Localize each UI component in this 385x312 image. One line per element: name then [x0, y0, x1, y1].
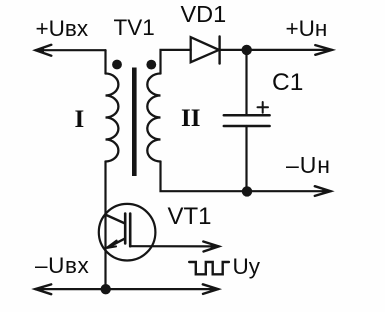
label winding I: [75, 106, 85, 134]
transistor collector line: [107, 215, 125, 223]
transformer core: [132, 68, 137, 177]
capacitor C1 bottom plate: [224, 125, 270, 128]
arrowhead right (+Uн terminal): [315, 45, 332, 55]
arrowhead left (+Uвх terminal): [36, 45, 52, 56]
label Uy: [233, 254, 261, 280]
control signal square-wave symbol: [189, 262, 229, 274]
capacitor polarity plus sign: [258, 102, 269, 113]
label TV1: [114, 15, 155, 41]
diode VD1 cathode bar: [218, 36, 220, 63]
arrowhead right (-Uн terminal): [315, 186, 331, 196]
label VD1: [181, 1, 227, 28]
wire top corner down to winding I: [104, 50, 106, 73]
diode VD1 triangle: [191, 37, 219, 62]
transistor base/channel bar: [124, 214, 127, 244]
label +Uвх: [36, 16, 89, 42]
wire winding II bottom to -Uн terminal: [161, 162, 331, 192]
label -Uвх: [35, 253, 89, 279]
label +Uн: [286, 16, 328, 42]
wire winding I bottom through transistor VT1 to bottom rail: [104, 162, 106, 290]
wire node down to capacitor C1: [245, 50, 247, 115]
wire diode cathode to +Uн terminal: [220, 49, 332, 51]
label C1: [272, 69, 303, 97]
arrowhead right (bottom rail): [203, 284, 218, 294]
transistor VT1 body circle: [99, 204, 156, 261]
transistor emitter line with arrow: [108, 239, 125, 248]
transistor gate electrode bar (L shape): [129, 214, 132, 247]
bottom rail -Uвх bus: [35, 288, 218, 290]
node junction top (diode / C1 / +Uн): [242, 45, 252, 55]
node junction bottom rail (emitter / -Uвх): [101, 284, 111, 294]
node junction bottom-right (C1 / -Uн): [242, 186, 252, 196]
gate control lead with arrow (Uу input): [130, 245, 219, 247]
polarity dot winding I: [112, 60, 122, 70]
polarity dot winding II: [146, 60, 156, 70]
label winding II: [181, 105, 200, 133]
transformer TV1 winding II (secondary): [147, 74, 160, 162]
wire +Uвх lead (top-left horizontal): [36, 49, 106, 51]
label -Uн: [286, 152, 331, 179]
capacitor C1 top plate: [224, 114, 270, 117]
label VT1: [168, 203, 212, 231]
wire winding II top to diode anode: [161, 50, 191, 74]
transformer TV1 winding I (primary): [106, 74, 119, 162]
arrowhead left (bottom rail): [35, 284, 51, 294]
wire capacitor down to bottom node: [245, 126, 247, 191]
